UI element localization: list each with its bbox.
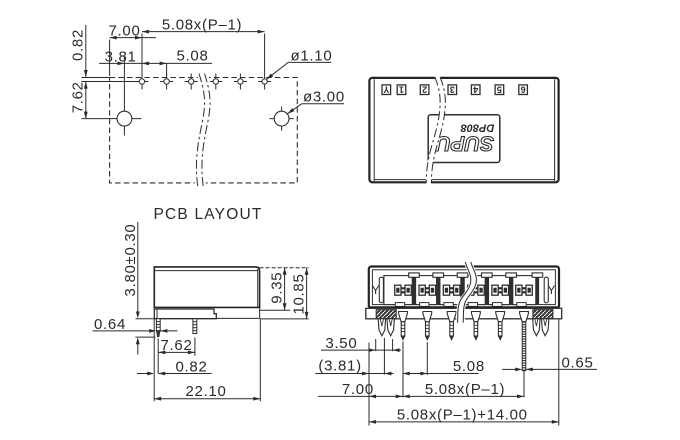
svg-text:0.82: 0.82: [70, 29, 87, 61]
svg-text:22.10: 22.10: [185, 383, 226, 400]
side view peg 2: [193, 319, 197, 334]
pin 5: [496, 312, 505, 340]
cavity separators: [412, 276, 539, 305]
pin hole 6: [258, 74, 271, 90]
cavity 3: [440, 276, 461, 305]
pin hole 5: [234, 74, 247, 90]
svg-text:7.00: 7.00: [342, 381, 374, 398]
dimension 0.82 (side view): [137, 359, 212, 376]
cavity 5: [489, 276, 510, 305]
cavity 2: [416, 276, 437, 305]
svg-text:10.85: 10.85: [291, 273, 308, 314]
front view body outline: [369, 267, 559, 309]
connector body side view: [154, 267, 259, 308]
foot block right (hatched): [533, 310, 553, 319]
side view front foot: [154, 309, 216, 319]
position index box 4: [471, 84, 480, 94]
svg-text:ø1.10: ø1.10: [291, 47, 333, 64]
foot prong left A: [378, 319, 385, 336]
extension line body left edge: [368, 343, 370, 426]
top tabs: [409, 273, 543, 277]
dimension 0.65: [502, 354, 597, 371]
title PCB LAYOUT: [154, 206, 263, 223]
mounting flange: [366, 308, 562, 319]
position index box 3: [448, 84, 457, 94]
svg-text:Y: Y: [372, 283, 380, 297]
svg-text:6: 6: [521, 84, 526, 94]
leader ø1.10: [265, 47, 332, 80]
svg-text:3.50: 3.50: [325, 335, 357, 352]
svg-text:Y: Y: [383, 84, 389, 94]
cavity 4: [464, 276, 485, 305]
dimension 0.82 (vertical, left): [70, 25, 88, 89]
contact icon 6: [516, 285, 533, 295]
side view pin 1: [156, 319, 160, 337]
dimension 22.10: [154, 318, 260, 401]
foot prong right A: [533, 319, 540, 336]
break line front view: [456, 262, 478, 324]
svg-text:5.08x(P–1): 5.08x(P–1): [425, 381, 505, 398]
extension line body right edge: [558, 320, 560, 426]
latch Y right: [544, 277, 555, 303]
pad row line: [81, 81, 136, 83]
PCB courtyard dashed outline: [110, 78, 298, 183]
extension line prong B: [392, 339, 394, 351]
cavity 6: [513, 276, 536, 305]
svg-text:1: 1: [399, 84, 404, 94]
dimension 7.62 (side view): [158, 337, 195, 374]
pin 3: [447, 312, 456, 340]
dimension 7.00 (front): [318, 381, 403, 398]
marking logo SUPU: [435, 132, 494, 155]
svg-text:5.08: 5.08: [453, 358, 485, 375]
svg-text:7.62: 7.62: [70, 81, 87, 113]
dimension 10.85 (vertical right): [260, 268, 309, 319]
dimension 0.64: [93, 316, 178, 333]
position index box 5: [495, 84, 504, 94]
svg-text:ø3.00: ø3.00: [303, 89, 345, 106]
latch Y left: [372, 277, 384, 303]
svg-text:5.08x(P–1): 5.08x(P–1): [162, 17, 242, 34]
marking text DP808: [460, 122, 495, 134]
dimension 5.08x(P-1) (top): [142, 17, 265, 74]
svg-text:2: 2: [422, 84, 427, 94]
svg-text:0.65: 0.65: [562, 354, 594, 371]
mounting hole right (ø3.00): [270, 107, 294, 131]
svg-text:3.80±0.30: 3.80±0.30: [122, 224, 139, 297]
pin 4: [472, 312, 481, 340]
pin hole 3: [185, 74, 198, 90]
extension line prong A: [375, 339, 377, 351]
pin hole 1 (ø1.10): [136, 74, 149, 90]
svg-text:SUPU: SUPU: [435, 132, 494, 155]
pin 2: [423, 312, 432, 340]
svg-text:3: 3: [450, 84, 455, 94]
extension line pin 6: [523, 371, 525, 398]
body bottom thick line: [369, 306, 559, 308]
svg-text:PCB LAYOUT: PCB LAYOUT: [154, 206, 263, 223]
svg-text:5: 5: [497, 84, 502, 94]
foot prong right B: [542, 319, 549, 336]
top view body: [369, 78, 558, 182]
leader ø3.00: [286, 89, 344, 116]
side view bottom strip: [216, 307, 259, 318]
cavity 1: [384, 276, 412, 305]
dimension 5.08x(P-1)+14.00: [369, 407, 559, 424]
pin 6 extended (hatched wire): [522, 322, 526, 371]
bottom tabs: [395, 303, 526, 307]
contact icon 1: [395, 285, 412, 295]
dimension 5.08 (front): [403, 358, 485, 375]
marking plate: [428, 115, 500, 163]
pin hole 4: [209, 74, 222, 90]
contact icon 5: [492, 285, 509, 295]
dimension 3.50: [321, 335, 401, 352]
extension line 3.81 ref: [383, 338, 385, 375]
svg-text:4: 4: [473, 84, 478, 94]
break line left view: [194, 73, 213, 190]
dimension (3.81): [315, 358, 393, 376]
extension line pin 2: [426, 342, 428, 375]
pin 6 head: [520, 312, 529, 322]
dimension 9.35 (vertical right): [260, 268, 291, 311]
mounting hole left (ø3.00): [81, 57, 141, 136]
dimension 7.62 (vertical, left): [70, 81, 88, 118]
svg-text:9.35: 9.35: [268, 272, 285, 304]
position index box 1: [397, 84, 406, 94]
dimension 3.81: [99, 48, 212, 65]
dimension 5.08 (PCB row pitch): [160, 48, 209, 76]
pin hole 2: [160, 74, 173, 90]
dimension 3.80±0.30 (vertical): [122, 222, 155, 355]
contact icon 4: [468, 285, 485, 295]
svg-text:5.08: 5.08: [177, 48, 209, 65]
foot prong left B: [387, 319, 394, 336]
contact icon 3: [443, 285, 460, 295]
dimension 7.00 (top): [109, 23, 157, 76]
position index box Y: [382, 84, 391, 94]
pin 1: [399, 312, 408, 340]
position index box 6: [519, 84, 528, 94]
foot block left (hatched): [376, 310, 396, 319]
break line top view: [426, 77, 446, 184]
dimension 5.08x(P-1): [403, 381, 524, 398]
extension line pin 1: [402, 342, 404, 398]
svg-text:(3.81): (3.81): [318, 358, 361, 375]
pad row extension line top: [81, 77, 109, 79]
svg-text:5.08x(P–1)+14.00: 5.08x(P–1)+14.00: [397, 407, 528, 424]
contact icon 2: [419, 285, 436, 295]
position index box 2: [420, 84, 429, 94]
